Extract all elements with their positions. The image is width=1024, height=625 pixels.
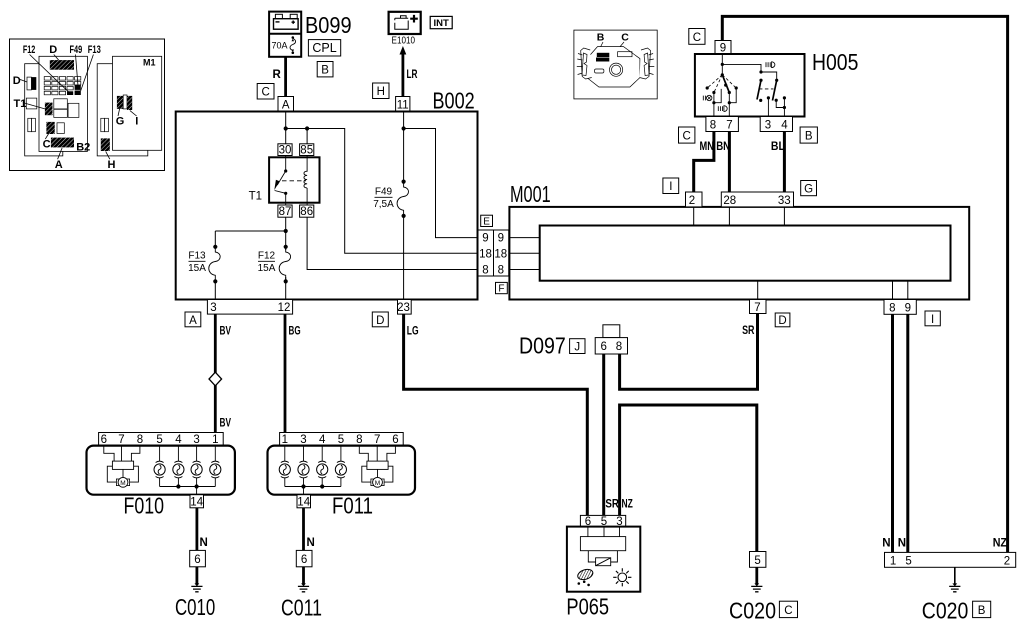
- body computer M001: [509, 181, 969, 300]
- ground C020 B: [922, 567, 969, 623]
- inset label F49: [70, 44, 83, 85]
- svg-text:C011: C011: [281, 595, 322, 621]
- svg-text:D: D: [49, 44, 57, 56]
- svg-text:2: 2: [689, 195, 695, 207]
- fuse F49 7,5A: [373, 180, 409, 218]
- relay contact 30-87: [274, 155, 306, 205]
- pin 14 of F011: [297, 495, 311, 509]
- svg-text:F011: F011: [332, 493, 373, 519]
- svg-text:85: 85: [300, 144, 313, 156]
- pins 3 and 12 of B002: [207, 300, 292, 315]
- relay pin 86: [300, 205, 314, 218]
- svg-text:8: 8: [710, 120, 716, 132]
- wire pin 11 feed to pin 9: [402, 126, 479, 237]
- front fog lamp F011 pin strip: [280, 433, 404, 447]
- connector label box F: [496, 282, 508, 294]
- junction above pin 85: [305, 126, 309, 130]
- wire R from B099 to B002 pin A: [273, 57, 286, 97]
- svg-text:18: 18: [494, 248, 507, 260]
- connector label box D (B002 pin 23): [372, 312, 388, 327]
- svg-text:8: 8: [137, 434, 143, 446]
- svg-text:5: 5: [338, 434, 344, 446]
- front fog lamp F010 pin strip: [99, 433, 224, 447]
- svg-text:5: 5: [156, 434, 162, 446]
- pin 5 of C020 C: [750, 552, 766, 568]
- svg-text:9: 9: [498, 233, 504, 245]
- wire NZ from H005 pin 9 to C020 pin 2 (top right run): [722, 16, 1007, 552]
- H005 internal feed node: [721, 54, 777, 80]
- svg-text:BV: BV: [220, 418, 232, 430]
- svg-text:6: 6: [301, 554, 307, 566]
- svg-text:H005: H005: [812, 49, 858, 75]
- svg-text:6: 6: [600, 341, 606, 353]
- F011 motor M: [359, 446, 395, 488]
- pins 6 8 of D097: [595, 338, 627, 354]
- svg-text:1: 1: [890, 556, 896, 568]
- inset fuse grid: [44, 77, 81, 95]
- connector D097: [519, 325, 620, 359]
- svg-text:N: N: [200, 537, 208, 549]
- wire SR from M001 pin 7 to D097 pin 8: [620, 314, 758, 390]
- svg-text:NZ: NZ: [622, 499, 633, 511]
- connector label box C (below H005): [679, 127, 695, 143]
- P065 switch contacts: [580, 527, 625, 566]
- svg-text:C: C: [683, 131, 691, 143]
- svg-text:14: 14: [297, 496, 310, 508]
- svg-text:A: A: [189, 315, 197, 327]
- svg-text:18: 18: [479, 248, 492, 260]
- label box CPL: [308, 40, 340, 56]
- wire pin A to relay 30: [285, 112, 287, 144]
- inline connector 6 (C011): [296, 550, 312, 566]
- svg-text:6: 6: [392, 434, 398, 446]
- ground C020 C: [729, 567, 776, 623]
- F010 lamp bus to pin 14: [160, 484, 216, 494]
- svg-text:70A: 70A: [272, 41, 288, 51]
- svg-text:BL: BL: [771, 141, 785, 153]
- relay T1: [249, 157, 320, 202]
- svg-text:C: C: [621, 32, 629, 44]
- wire BL from H005 pin 4 to M001 pin 33: [771, 132, 785, 193]
- svg-text:C020: C020: [729, 598, 776, 624]
- svg-text:D: D: [778, 315, 786, 327]
- H005 left switch (lights rotary): [706, 75, 738, 117]
- wire 87 to fuses: [215, 217, 288, 233]
- pin 23 of B002: [397, 300, 411, 315]
- svg-text:F49: F49: [70, 44, 83, 56]
- wire N from F011 to C011: [304, 508, 315, 551]
- wire battery feed to pin 85 and pin 18: [286, 129, 478, 254]
- svg-text:6: 6: [101, 434, 107, 446]
- connector label box G: [801, 181, 817, 196]
- svg-text:D097: D097: [519, 333, 566, 359]
- svg-text:3: 3: [765, 120, 771, 132]
- fuse F13 15A: [188, 231, 223, 300]
- inset main fuse panel B2: [39, 56, 87, 151]
- relay pin 87: [278, 205, 292, 218]
- svg-text:B: B: [978, 605, 986, 617]
- P065 fog light icon: [576, 568, 594, 587]
- connector label box C (top of H005): [689, 29, 705, 45]
- svg-text:9: 9: [905, 302, 911, 314]
- inset module M1: [101, 56, 162, 151]
- F010 lamp 1: [210, 446, 221, 487]
- wire labels SR NZ at P065: [605, 499, 632, 511]
- svg-text:B2: B2: [76, 141, 90, 153]
- svg-text:A: A: [282, 100, 290, 112]
- M001 internal pin stubs top: [694, 207, 785, 226]
- F010 lamp 4: [173, 446, 184, 487]
- svg-text:F13: F13: [88, 44, 101, 56]
- svg-text:3: 3: [193, 434, 199, 446]
- svg-text:7,5A: 7,5A: [373, 199, 394, 210]
- wire BG from B002 pin 12 to F011 pin 1: [285, 314, 301, 432]
- svg-text:4: 4: [319, 434, 326, 446]
- fog light switch P065: [566, 527, 640, 620]
- connector label box B: [800, 127, 817, 143]
- icon low beam: [718, 106, 727, 112]
- connector label box D (M001 pin 7): [775, 313, 790, 327]
- svg-text:N: N: [882, 538, 890, 550]
- light switch H005: [695, 49, 859, 117]
- svg-text:B: B: [597, 32, 605, 44]
- splice on BV wire: [209, 372, 222, 386]
- svg-text:7: 7: [754, 302, 760, 314]
- svg-text:I: I: [135, 116, 138, 128]
- pin 11 of B002: [396, 97, 410, 112]
- svg-text:F13: F13: [188, 251, 206, 262]
- inset label I: [130, 111, 138, 128]
- wire 86 to pin 8: [307, 217, 478, 269]
- svg-text:11: 11: [397, 100, 409, 112]
- wire N from M001 pin 8 to C020 pin 1: [891, 314, 894, 552]
- M001 internal pin stubs bottom: [758, 281, 908, 300]
- svg-text:G: G: [116, 116, 125, 128]
- svg-text:30: 30: [279, 144, 292, 156]
- svg-text:9: 9: [720, 43, 726, 55]
- wire LG from B002 pin 23 to P065 pin 6: [404, 314, 588, 515]
- svg-text:C: C: [693, 32, 701, 44]
- wire BV from B002 pin 3 to F010 pin 1: [215, 314, 231, 432]
- svg-text:CPL: CPL: [312, 41, 336, 55]
- inset relay squares: [45, 99, 79, 148]
- svg-text:P065: P065: [566, 594, 609, 620]
- svg-text:8: 8: [482, 264, 488, 276]
- inline connector 6 (C010): [190, 550, 206, 566]
- H005 pins 3 4: [760, 117, 792, 132]
- svg-text:INT: INT: [434, 18, 450, 29]
- F011 lamp bus to pin 14: [285, 484, 341, 494]
- svg-text:B: B: [321, 65, 329, 77]
- svg-text:15A: 15A: [258, 263, 276, 274]
- svg-text:I: I: [669, 181, 672, 193]
- svg-text:8: 8: [498, 264, 504, 276]
- wire N from F010 to C010: [197, 508, 208, 551]
- pins 6 5 3 of P065: [580, 515, 625, 527]
- pin 7 of M001: [750, 300, 767, 315]
- B002 side pin block 9/18/8: [478, 230, 509, 276]
- svg-text:SR: SR: [742, 325, 755, 337]
- svg-text:H: H: [108, 159, 116, 171]
- inset label T1: [14, 98, 45, 110]
- svg-text:F49: F49: [375, 187, 393, 198]
- svg-text:1: 1: [282, 434, 288, 446]
- svg-text:3: 3: [210, 302, 216, 314]
- connector label box H: [373, 83, 389, 99]
- svg-text:G: G: [804, 184, 813, 196]
- inset label G: [116, 109, 125, 128]
- fusible link 70A in B099: [272, 36, 296, 54]
- svg-text:1: 1: [212, 434, 218, 446]
- svg-text:C: C: [43, 138, 51, 150]
- H005 right switch (dimmer/flash): [757, 79, 786, 117]
- icon side lights: [703, 95, 712, 100]
- svg-text:87: 87: [279, 206, 292, 218]
- svg-text:T1: T1: [14, 98, 27, 110]
- front fog lamp F011 body: [268, 446, 416, 519]
- connector label box I: [663, 178, 679, 194]
- svg-text:C: C: [261, 87, 269, 99]
- svg-text:N: N: [898, 538, 906, 550]
- svg-text:J: J: [574, 341, 580, 353]
- svg-text:D: D: [13, 75, 21, 87]
- label box B: [317, 62, 333, 77]
- svg-text:D: D: [376, 315, 384, 327]
- inset label F13: [81, 44, 101, 91]
- svg-text:F12: F12: [258, 251, 276, 262]
- svg-text:F010: F010: [124, 493, 165, 519]
- ground C011: [281, 567, 322, 621]
- inset right mounting plate: [97, 64, 148, 156]
- wire LR with arrow from B002 pin 11 to E1010: [400, 46, 418, 97]
- svg-text:C010: C010: [175, 594, 215, 620]
- svg-text:8: 8: [889, 302, 895, 314]
- svg-text:7: 7: [118, 434, 124, 446]
- pins 28 and 33 of M001: [721, 192, 793, 207]
- fusebox location inset: [10, 39, 165, 171]
- M001 inner unit: [540, 226, 951, 281]
- svg-text:12: 12: [278, 302, 291, 314]
- junction on wire A feed: [284, 126, 288, 130]
- svg-text:H: H: [377, 86, 385, 98]
- label box INT: [430, 16, 452, 29]
- fusebox B002: [176, 112, 478, 300]
- svg-text:M1: M1: [143, 58, 156, 68]
- svg-text:F: F: [498, 284, 504, 295]
- inset label H: [106, 151, 116, 171]
- ground C010: [175, 567, 215, 620]
- svg-text:MN: MN: [700, 141, 714, 153]
- svg-text:7: 7: [726, 120, 732, 132]
- wire NZ from P065 pin 3 to C020 pin 5: [620, 405, 757, 552]
- F010 lamp 5: [154, 446, 165, 487]
- svg-text:F12: F12: [23, 44, 35, 56]
- svg-text:I: I: [931, 314, 934, 326]
- svg-text:14: 14: [190, 496, 203, 508]
- svg-text:E: E: [483, 216, 490, 227]
- steering column switch inset: [574, 30, 657, 99]
- front fog lamp F010 body: [87, 446, 235, 519]
- ground point E1010: [389, 12, 421, 47]
- connector label box I (M001 pins 8-9): [925, 311, 940, 326]
- svg-text:4: 4: [175, 434, 182, 446]
- inset label C: [43, 134, 51, 151]
- svg-text:M001: M001: [510, 181, 551, 207]
- svg-text:T1: T1: [249, 191, 262, 203]
- inset label F12: [23, 44, 70, 93]
- svg-text:E1010: E1010: [392, 36, 416, 47]
- inset left mounting plate: [25, 64, 63, 156]
- F011 lamp 5: [335, 446, 346, 487]
- wire BN from H005 pin 7 to M001 pin 28: [716, 132, 730, 193]
- svg-text:5: 5: [754, 555, 760, 567]
- svg-text:M: M: [375, 480, 380, 487]
- relay pin 30: [278, 144, 292, 157]
- svg-text:NZ: NZ: [993, 538, 1007, 550]
- svg-text:8: 8: [616, 341, 622, 353]
- connector label box C (C020): [779, 601, 797, 617]
- svg-text:6: 6: [194, 554, 200, 566]
- svg-text:SR: SR: [605, 499, 619, 511]
- inset label D top: [49, 44, 58, 60]
- svg-text:R: R: [273, 69, 282, 81]
- connector label box B (C020): [973, 601, 991, 617]
- svg-text:23: 23: [397, 302, 410, 314]
- F011 lamp 1: [279, 446, 290, 487]
- F011 lamp 3: [298, 446, 309, 487]
- pin A of B002: [278, 97, 294, 112]
- M001 internal pin stubs left: [509, 238, 540, 270]
- relay pin 85: [300, 144, 314, 157]
- svg-text:BV: BV: [220, 326, 232, 338]
- inset label A: [55, 148, 63, 171]
- svg-text:B099: B099: [305, 12, 352, 38]
- svg-text:33: 33: [778, 195, 791, 207]
- svg-text:M: M: [120, 480, 125, 487]
- svg-text:8: 8: [356, 434, 362, 446]
- svg-text:2: 2: [1004, 556, 1010, 568]
- svg-text:4: 4: [781, 120, 788, 132]
- svg-text:3: 3: [300, 434, 306, 446]
- wire pin 11 down through F49 to pin 23: [403, 112, 405, 300]
- svg-text:LG: LG: [407, 326, 419, 338]
- icon headlamp (right group): [766, 62, 775, 68]
- connector label box E: [481, 215, 493, 227]
- relay coil 85-86: [304, 155, 307, 205]
- svg-text:7: 7: [374, 434, 380, 446]
- P065 light-on icon: [613, 568, 631, 586]
- battery B099: [269, 12, 352, 57]
- svg-text:B: B: [805, 131, 813, 143]
- fuse F12 15A: [258, 231, 294, 300]
- svg-text:9: 9: [482, 233, 488, 245]
- pin 14 of F010: [190, 495, 204, 509]
- svg-text:86: 86: [300, 206, 313, 218]
- connector strip C020 B pins 1 5 2: [885, 552, 1016, 567]
- F010 motor M: [104, 446, 140, 488]
- H005 pins 8 7: [706, 117, 739, 132]
- F010 lamp 3: [191, 446, 202, 487]
- svg-text:B002: B002: [433, 88, 475, 114]
- svg-text:5: 5: [905, 556, 911, 568]
- svg-text:BG: BG: [289, 326, 301, 338]
- inset label D left: [13, 75, 27, 87]
- connector label box A: [185, 312, 201, 327]
- svg-text:28: 28: [723, 195, 736, 207]
- pins 8 and 9 of M001: [884, 300, 916, 315]
- pin 2 of M001: [686, 192, 703, 207]
- connector label box C: [257, 84, 274, 100]
- wire MN from H005 pin 8 to M001 pin 2: [694, 132, 714, 193]
- svg-text:BN: BN: [716, 141, 730, 153]
- svg-text:15A: 15A: [188, 263, 206, 274]
- pin 9 of H005: [715, 41, 731, 55]
- svg-text:C: C: [784, 605, 792, 617]
- svg-text:LR: LR: [407, 69, 418, 81]
- label box J: [570, 339, 585, 354]
- svg-text:C020: C020: [922, 598, 969, 624]
- wire SR from D097 pin 6 to P065 pin 5: [602, 354, 605, 515]
- wire N from M001 pin 9 to C020 pin 5: [906, 314, 909, 552]
- F011 lamp 4: [317, 446, 328, 487]
- svg-text:A: A: [55, 159, 63, 171]
- svg-text:N: N: [307, 537, 315, 549]
